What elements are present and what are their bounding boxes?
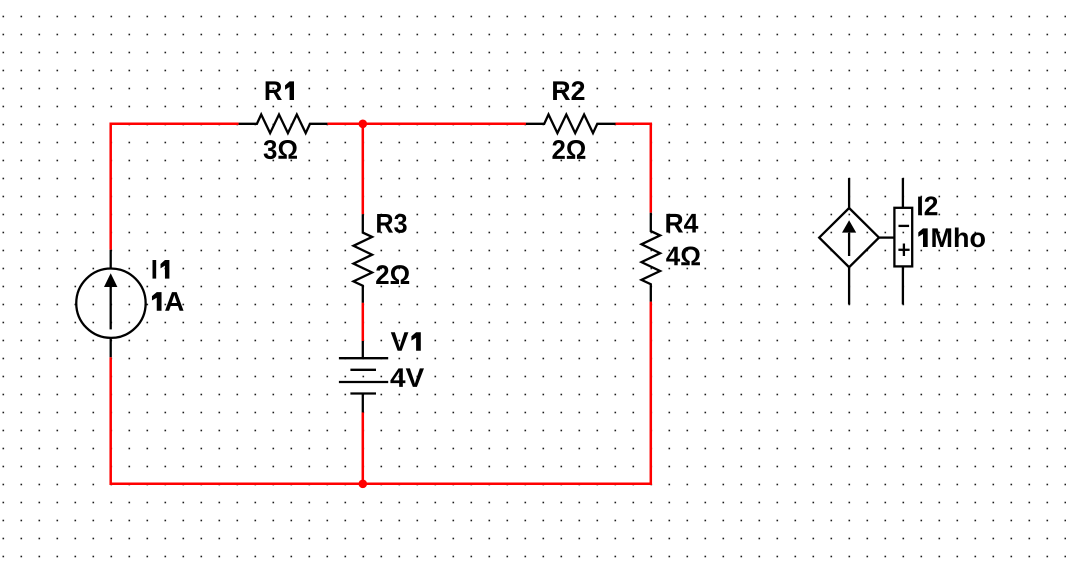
battery V1	[339, 341, 388, 412]
wire node to R3	[362, 124, 365, 215]
label R4	[666, 214, 698, 233]
resistor R2	[526, 115, 616, 134]
value 1A	[152, 292, 184, 311]
label R3	[377, 214, 407, 233]
dependent source I2 (diamond)	[819, 178, 894, 304]
value 2Ω	[552, 140, 585, 159]
label I1	[153, 260, 170, 279]
value 3Ω	[264, 140, 297, 159]
value 1Mho	[918, 227, 985, 247]
label V1	[391, 332, 421, 351]
wire V1 to bottom rail	[362, 412, 365, 483]
wire R3 to V1	[362, 303, 365, 341]
node junction bottom	[359, 480, 368, 489]
wire I1 bottom, bottom rail, right riser lower	[111, 302, 651, 484]
resistor R4	[642, 213, 661, 302]
sense element of I2	[894, 178, 912, 304]
wire right riser upper, top-right	[616, 124, 651, 213]
node junction top	[359, 120, 368, 129]
wire top-left to I1 top	[111, 124, 239, 250]
wire top middle	[327, 123, 526, 126]
label R2	[553, 81, 584, 100]
current source I1	[76, 250, 145, 357]
value 4V	[390, 368, 424, 387]
value 4Ω	[666, 246, 700, 265]
resistor R1	[239, 115, 328, 134]
resistor R3	[353, 214, 372, 302]
label R1	[266, 81, 294, 100]
value 2Ω	[376, 265, 409, 284]
label I2	[918, 196, 937, 215]
